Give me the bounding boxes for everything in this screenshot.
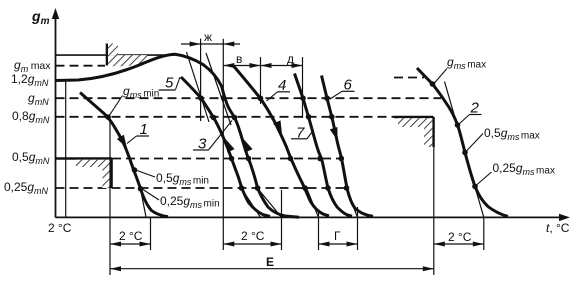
- svg-text:2 °C: 2 °C: [119, 229, 143, 243]
- x-axis: [56, 214, 571, 221]
- extension line x=65.7: [65, 81, 67, 218]
- dot curve7 0.8: [306, 114, 312, 120]
- label g_ms min + leader: [109, 84, 159, 116]
- dot curve2 0.25gms max: [462, 150, 468, 156]
- solid level 0.5 g_mN: [56, 157, 113, 159]
- svg-text:ж: ж: [204, 30, 212, 44]
- label curve 4: [267, 77, 291, 101]
- extension line x=433.8: [433, 147, 435, 275]
- dimension 2°C #1: [110, 229, 151, 247]
- dimension Г: [319, 229, 358, 247]
- label 0,25g_ms max + leader: [477, 161, 555, 185]
- dot curve4 gmN: [258, 96, 264, 102]
- thin tangent T2 (hump right): [206, 53, 231, 125]
- curve 1: [80, 93, 168, 217]
- curve 5 up-arrow: [226, 139, 235, 153]
- dot curve6 0.25: [344, 185, 350, 191]
- label curve 5: [159, 75, 181, 92]
- curve 4: [234, 67, 329, 216]
- dot curve7 0.25: [325, 185, 331, 191]
- dimension Е: [110, 255, 434, 271]
- thin tangent curve5 tail: [242, 189, 261, 218]
- extension line x=318.5: [318, 210, 320, 250]
- dot curve5 gmN: [198, 95, 204, 101]
- dimension 2°C #3: [434, 230, 484, 247]
- label 0,25g_ms min + leader: [143, 190, 220, 211]
- dot hump 0.5: [246, 156, 252, 162]
- dot curve1 0.5gms min: [132, 167, 138, 173]
- dimension в: [223, 52, 260, 68]
- svg-text:Е: Е: [266, 255, 274, 269]
- label 0,5g_ms max + leader: [467, 126, 540, 151]
- thin tangent curve4 tail: [307, 188, 319, 217]
- dot curve5 0.25: [239, 185, 245, 191]
- dot hump gmN: [221, 95, 227, 101]
- dot curve6 0.8: [329, 114, 335, 120]
- label curve 7: [291, 125, 314, 142]
- dot hump 0.25: [255, 185, 261, 191]
- extension line x=150.5: [150, 217, 152, 250]
- curve 1 arrow: [117, 135, 127, 148]
- label curve 3: [193, 121, 232, 153]
- y-axis: [52, 8, 59, 218]
- curve 5: [181, 77, 270, 216]
- svg-text:в: в: [236, 52, 242, 66]
- dashed level 0.25 g_mN: [56, 187, 348, 189]
- dot curve6 gmN: [324, 95, 330, 101]
- dashed level g_mN: [56, 97, 442, 99]
- dot curve2 0.25gms max second: [472, 184, 478, 190]
- thin tangent hump tail: [259, 190, 282, 218]
- curve 6 arrow: [330, 127, 338, 141]
- extension line L4 x=302.5: [302, 57, 304, 118]
- label g_ms max + leader: [434, 55, 486, 84]
- thin tangent T1 (hump/5 left): [187, 52, 210, 122]
- dot curve4 0.25: [302, 185, 308, 191]
- svg-text:2 °C: 2 °C: [241, 229, 265, 243]
- hatch block right: [394, 117, 434, 147]
- dot curve5 0.8: [211, 115, 217, 121]
- extension line x=110 (E left): [109, 117, 111, 275]
- dashed level 0.5 g_mN: [112, 158, 343, 160]
- thin tangent curve1 tail: [141, 189, 147, 217]
- hump lower up-arrow: [244, 139, 253, 153]
- extension line x=357.5: [357, 207, 359, 250]
- dot curve7 gmN: [300, 95, 306, 101]
- dot curve1 gms min: [105, 114, 111, 120]
- hatch block top-left: [107, 44, 147, 67]
- level line solid g_m max upper: [56, 54, 175, 56]
- curve 2: [417, 68, 508, 216]
- dot curve4 0.5: [288, 156, 294, 162]
- dot hump 0.8: [232, 115, 238, 121]
- curve 4 arrow: [273, 120, 282, 134]
- dimension ж: [181, 30, 240, 47]
- svg-text:t, °C: t, °C: [546, 221, 570, 235]
- dot curve5 0.5: [229, 156, 235, 162]
- curve 7: [295, 74, 353, 217]
- svg-text:д: д: [287, 52, 294, 66]
- dashed segment right 1.2g_mN: [394, 77, 424, 79]
- svg-text:Г: Г: [334, 229, 341, 243]
- hump curve (1.2 g_mN boundary): [56, 54, 300, 217]
- hatch block mid-left: [76, 159, 112, 189]
- extension line x=483.8: [483, 217, 485, 250]
- dot curve6 0.5: [339, 156, 345, 162]
- label curve 1: [127, 121, 149, 144]
- label curve 2: [459, 100, 482, 125]
- dot curve1 0.25gms min: [138, 186, 144, 192]
- curve 6: [322, 76, 374, 217]
- extension line L1 x=200.6: [200, 39, 202, 121]
- svg-text:2 °C: 2 °C: [448, 230, 472, 244]
- dimension д: [261, 52, 303, 68]
- dashed level 0.8 g_mN: [56, 116, 395, 118]
- dot curve2 0.5gms max: [455, 122, 461, 128]
- dashed level g_m max: [56, 65, 106, 67]
- svg-text:2 °C: 2 °C: [48, 221, 72, 235]
- extension line x=281.5: [281, 190, 283, 250]
- dimension 2°C #2: [223, 229, 281, 247]
- svg-text:5: 5: [165, 75, 174, 92]
- dot curve2 gms max: [430, 81, 436, 87]
- label curve 6: [330, 77, 355, 100]
- extension line L2 x=223.3: [222, 39, 224, 250]
- extension line L3 x=260.5: [260, 57, 262, 104]
- dot curve7 0.5: [317, 156, 323, 162]
- thin tangent curve2: [445, 82, 484, 218]
- thin tangent curve6 tail: [346, 188, 358, 217]
- label 0,5g_ms min + leader: [137, 171, 209, 188]
